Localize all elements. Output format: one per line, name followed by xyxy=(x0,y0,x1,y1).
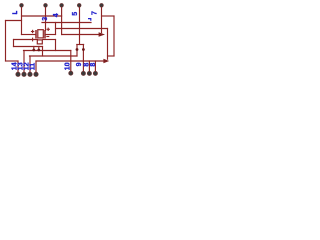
capacitor C1 stub xyxy=(33,47,35,49)
wire W1 pin1 to pin4 xyxy=(22,15,62,17)
capacitor C2 stub xyxy=(38,47,40,49)
polarity plus on X2 lead xyxy=(32,38,34,42)
wire vertical x42.5 xyxy=(42,47,44,57)
capacitor C2 pad xyxy=(37,49,40,52)
capacitor C3 leg vertical xyxy=(76,45,78,57)
svg-text:3: 3 xyxy=(42,17,49,21)
pin pad top 4 xyxy=(60,3,64,7)
pin pad bottom 13 xyxy=(22,72,26,76)
wire pin1 vertical xyxy=(21,7,23,35)
wire pin7 vertical xyxy=(101,7,103,33)
arrow wire-end net F xyxy=(103,59,109,63)
wire jog right y56 xyxy=(108,55,115,57)
wire pin3 vertical xyxy=(45,7,47,31)
pin pad bottom 10 xyxy=(69,71,73,75)
polarity minus mark xyxy=(46,36,49,38)
wire bus top horizontal xyxy=(6,20,22,22)
wire W3 horizontal y28.5 xyxy=(56,28,108,30)
svg-text:9: 9 xyxy=(76,62,83,66)
wire resonator X2 right lead xyxy=(43,39,56,41)
wire crystal X1 left lead xyxy=(22,34,36,36)
wire crystal X1 right lead xyxy=(46,34,56,36)
capacitor C1 pad xyxy=(32,49,35,52)
wire net E y56 xyxy=(30,55,78,57)
svg-text:5: 5 xyxy=(72,12,79,16)
wire resonator X2 left lead xyxy=(14,39,38,41)
wire pin4 vertical xyxy=(61,7,63,35)
pin pad bottom 12 xyxy=(28,72,32,76)
wire left bus vertical xyxy=(5,21,7,62)
wire bottom-left y61 xyxy=(6,60,19,62)
wire right vertical x107.5 xyxy=(107,29,109,60)
pin pad bottom 14 xyxy=(16,72,20,76)
pin pad top 7 xyxy=(100,3,104,7)
wire vertical x55.5 lower xyxy=(55,40,57,51)
wire bottom pin8 vertical xyxy=(88,61,90,72)
pin number 1 xyxy=(12,11,17,14)
svg-text:10: 10 xyxy=(65,62,72,70)
svg-text:7: 7 xyxy=(92,11,99,15)
pin pad top 1 xyxy=(20,3,24,7)
capacitor C3 pad xyxy=(76,48,79,51)
wire vertical x55.5 upper xyxy=(55,23,57,35)
svg-text:11: 11 xyxy=(30,63,37,71)
net stub blue tick xyxy=(88,19,91,21)
wire right vertical x114 xyxy=(113,16,115,56)
wire bottom pin11 vertical xyxy=(35,61,37,72)
wire bottom pin14 vertical xyxy=(17,61,19,72)
wire bottom pin10 vertical xyxy=(70,51,72,72)
wire bottom pin13 vertical xyxy=(23,51,25,73)
wire net D y50.5 xyxy=(24,50,71,52)
wire W2 horizontal y22.5 xyxy=(42,22,91,24)
polarity plus left of X1 xyxy=(31,30,34,33)
crystal X1 right plate xyxy=(44,30,46,39)
pin pad top 3 xyxy=(44,3,48,7)
pin pad bottom 11 xyxy=(34,72,38,76)
pin pad bottom 7 xyxy=(93,71,97,75)
capacitor C4 pad xyxy=(82,48,85,51)
wire bottom pin12 vertical xyxy=(29,56,31,72)
crystal X1 body xyxy=(38,30,44,38)
wire net to arrow y34.5 xyxy=(62,34,99,36)
wire net F y61 to arrow xyxy=(36,60,104,62)
polarity plus right of X1 xyxy=(47,28,50,31)
resonator X2 body xyxy=(37,40,42,44)
crystal X1 left plate xyxy=(35,30,37,39)
svg-text:4: 4 xyxy=(53,13,60,17)
capacitor C4 leg / pin9 vertical xyxy=(82,45,84,73)
wire pin7 to right corner xyxy=(102,15,115,17)
wire vertical x13.5 xyxy=(13,40,15,47)
wire pin5 vertical xyxy=(79,7,81,45)
wire cap bar right y44.5 xyxy=(77,44,84,46)
arrow wire-end net C xyxy=(99,32,105,36)
wire cap bar y46.5 xyxy=(14,46,43,48)
wire bottom pin7b vertical xyxy=(94,61,96,72)
svg-text:8: 8 xyxy=(90,63,97,67)
pin pad bottom 8 xyxy=(87,71,91,75)
pin pad bottom 9 xyxy=(81,71,85,75)
pin pad top 5 xyxy=(77,3,81,7)
